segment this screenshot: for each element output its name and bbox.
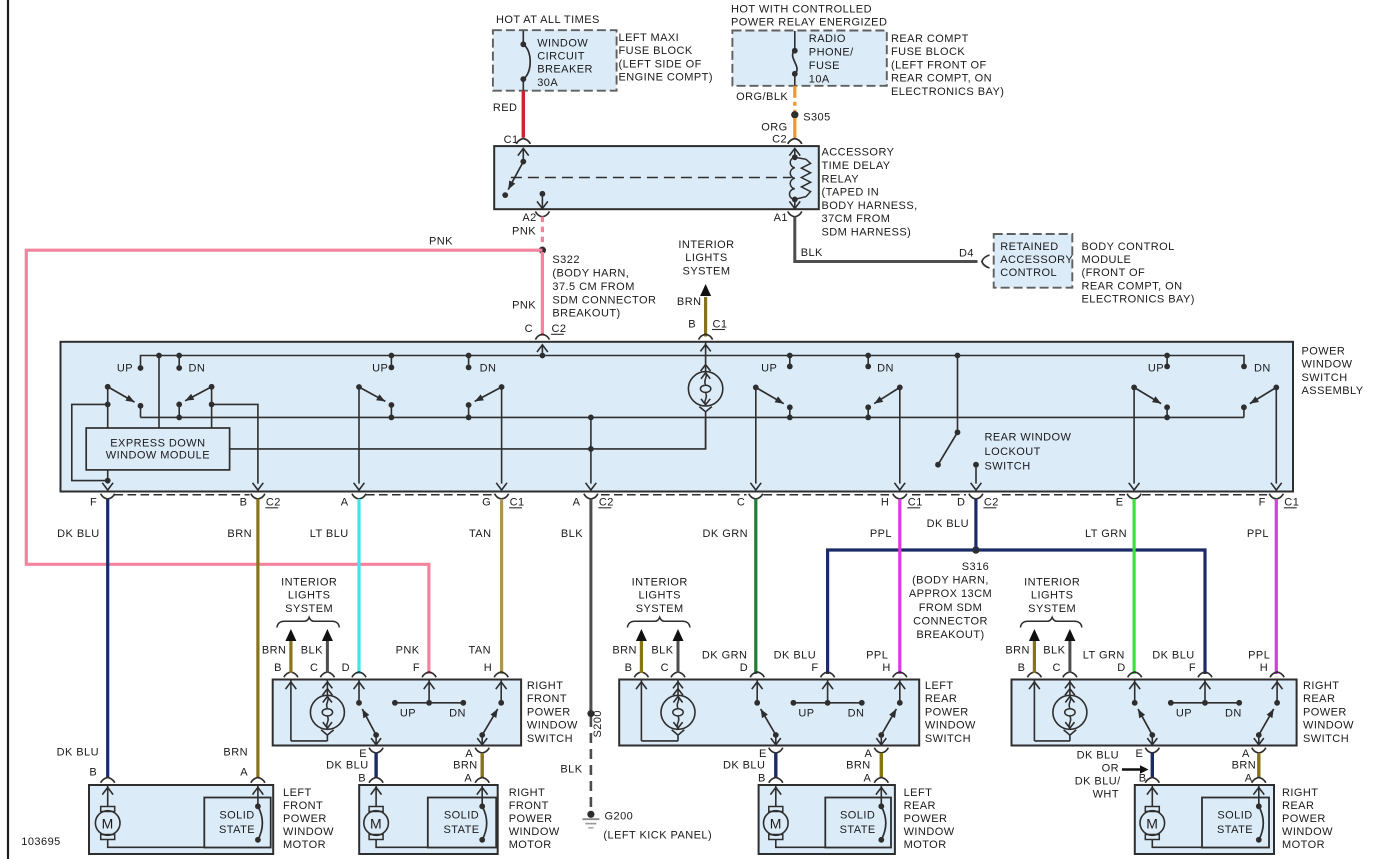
left rear up blade [761,709,776,735]
label SOLID STATE right front [443,810,479,837]
svg-text:BLK: BLK [560,763,582,775]
svg-text:ORG: ORG [761,121,787,133]
right front connector H [484,662,508,677]
connector pin D C2 assembly bottom [957,494,999,509]
svg-text:LOCKOUT: LOCKOUT [985,446,1041,458]
connector C1 [504,134,531,146]
svg-text:POWER: POWER [509,813,553,825]
connector pin A C2 assembly bottom [573,494,614,509]
svg-text:M: M [102,816,114,832]
svg-text:DN: DN [1254,363,1271,375]
svg-text:(LEFT KICK PANEL): (LEFT KICK PANEL) [603,829,712,841]
right rear switch box [1012,680,1297,746]
switch master left contact [138,403,144,418]
svg-text:WINDOW: WINDOW [509,826,560,838]
svg-text:ENGINE COMPT): ENGINE COMPT) [619,72,713,84]
connector pin F C1 assembly bottom [1259,494,1300,509]
svg-text:DK BLU: DK BLU [57,746,99,758]
svg-text:MOTOR: MOTOR [1282,839,1325,851]
svg-text:WINDOW: WINDOW [537,37,588,49]
svg-text:A2: A2 [522,212,536,224]
svg-text:ACCESSORY: ACCESSORY [1000,254,1073,266]
relay control dashed line [511,177,792,179]
svg-text:SOLID: SOLID [840,810,875,822]
wire DK BLU pin D to S316 [974,499,977,550]
svg-text:UP: UP [400,708,416,720]
switch master DN stub [176,353,205,375]
svg-text:A: A [464,773,472,785]
svg-text:STATE: STATE [840,824,876,836]
svg-text:SYSTEM: SYSTEM [285,603,333,615]
svg-text:FRONT: FRONT [283,800,323,812]
svg-text:STATE: STATE [219,824,255,836]
svg-text:LEFT: LEFT [904,787,933,799]
switch master UP contact [117,363,144,375]
connector C C2 into assembly [525,323,567,340]
svg-text:B: B [89,766,97,778]
svg-text:BLK: BLK [301,645,323,657]
wire BRN right rear A [1257,753,1260,778]
switch lr left contact [787,404,793,420]
left rear motor box [759,785,895,854]
wire express bypass loop [72,404,108,480]
wire pin A C2 ground [586,415,597,491]
svg-text:BLK: BLK [561,528,583,540]
svg-text:PNK: PNK [512,300,536,312]
label ACCESSORY TIME DELAY RELAY [822,147,918,239]
svg-text:H: H [1260,662,1268,674]
svg-text:PNK: PNK [396,645,420,657]
right front connector C [310,662,334,677]
svg-text:FROM SDM: FROM SDM [919,602,982,614]
svg-text:E: E [759,748,767,760]
label WINDOW CIRCUIT BREAKER 30A [537,37,593,89]
right front solid state box [428,798,496,848]
label INTERIOR LIGHTS SYSTEM right front [281,576,337,614]
wire BRN to interior lights [700,284,711,337]
svg-text:POWER: POWER [527,706,571,718]
svg-text:C1: C1 [504,134,519,146]
svg-text:LEFT: LEFT [283,787,312,799]
svg-text:POWER: POWER [1302,346,1346,358]
svg-text:B: B [358,773,366,785]
svg-text:RIGHT: RIGHT [1303,680,1339,692]
svg-text:37CM FROM: 37CM FROM [822,213,891,225]
svg-text:FUSE BLOCK: FUSE BLOCK [619,45,693,57]
label left rear switch [925,680,976,745]
svg-text:BRN: BRN [1232,760,1257,772]
svg-text:C1: C1 [1284,497,1299,509]
left rear window up switch [752,680,763,706]
switch rf DN stub [466,353,497,375]
connector pin B C2 assembly bottom [240,494,281,509]
svg-text:MOTOR: MOTOR [904,839,947,851]
switch lr left blade [756,387,784,403]
svg-text:DN: DN [480,363,497,375]
svg-text:B: B [625,662,633,674]
connector C2 [772,134,802,146]
svg-text:REAR: REAR [1282,800,1314,812]
switch rr right pivot [1271,385,1282,491]
svg-text:BREAKOUT): BREAKOUT) [552,308,620,320]
svg-text:FRONT: FRONT [527,693,567,705]
label S316 BODY HARN [909,561,992,641]
connector B C1 assembly top [688,318,727,339]
svg-text:(LEFT SIDE OF: (LEFT SIDE OF [619,58,702,70]
svg-text:(LEFT FRONT OF: (LEFT FRONT OF [891,59,987,71]
label LEFT MAXI FUSE BLOCK [619,32,713,84]
svg-text:DN: DN [449,708,466,720]
connector A motor left rear A [864,773,889,785]
right front solid state switch [477,785,488,843]
svg-text:LT BLU: LT BLU [310,528,349,540]
svg-text:B: B [274,662,282,674]
right rear up lower contact [1147,732,1157,745]
wire BRN left rear A [880,753,883,778]
svg-text:BRN: BRN [227,528,252,540]
svg-text:REAR COMPT: REAR COMPT [891,33,969,45]
svg-text:DK BLU: DK BLU [326,760,368,772]
svg-text:S305: S305 [803,111,831,123]
svg-text:C2: C2 [599,497,614,509]
wire BRN right front A [481,753,484,778]
svg-text:DN: DN [877,363,894,375]
arrow pointer to B [1122,765,1149,773]
left rear connector A bottom [865,748,889,761]
svg-text:DK BLU: DK BLU [723,760,765,772]
svg-text:ACCESSORY: ACCESSORY [822,147,895,159]
svg-text:REAR WINDOW: REAR WINDOW [985,432,1072,444]
svg-text:A1: A1 [774,212,788,224]
connector pin H C1 assembly bottom [881,494,923,509]
svg-text:BLK: BLK [801,247,823,259]
splice S322 [539,247,546,254]
wire DK BLU pin F to left front motor [106,499,109,778]
left rear window down switch [894,680,905,706]
left rear rocker UP DN [791,680,865,720]
wire RED [522,91,525,138]
svg-text:RIGHT: RIGHT [527,680,563,692]
switch lr left pivot [750,385,761,491]
label right front switch [527,680,578,745]
svg-text:BRN: BRN [846,760,871,772]
switch rr DN contact [1241,363,1271,375]
right rear motor M [1140,785,1259,847]
connector A motor right front A [464,773,489,785]
svg-text:WINDOW: WINDOW [1302,359,1353,371]
svg-text:UP: UP [798,708,814,720]
svg-text:LEFT: LEFT [925,680,954,692]
switch lr UP stub [761,353,793,375]
splice S305 [791,111,831,123]
svg-text:PPL: PPL [1248,650,1270,662]
switch rr right contact [1241,404,1247,417]
svg-text:H: H [484,662,492,674]
svg-text:LIGHTS: LIGHTS [685,252,727,264]
svg-text:WINDOW: WINDOW [283,826,334,838]
lamp assembly illumination [688,342,722,449]
wire BLK interior lights left rear [673,629,684,673]
svg-text:10A: 10A [809,73,830,85]
switch rf left contact [389,402,395,420]
wire bus2 [141,416,1244,418]
fuse block box (left maxi) [493,30,617,90]
relay contact A2 stub [537,191,548,209]
label INTERIOR LIGHTS SYSTEM top [678,239,734,277]
switch rf left blade [359,387,385,401]
svg-text:D: D [740,662,748,674]
svg-text:BLK: BLK [651,645,673,657]
label HOT WITH CONTROLLED POWER RELAY ENERGIZED [731,4,887,29]
connector B motor right front E [358,773,383,785]
connector pin F assembly bottom [90,494,115,509]
svg-text:SOLID: SOLID [219,810,254,822]
ground G200 [582,811,599,828]
retained accessory control box [994,234,1073,288]
svg-text:RELAY: RELAY [822,173,860,185]
left rear solid state box [825,798,891,848]
svg-text:BRN: BRN [1005,645,1030,657]
svg-text:MOTOR: MOTOR [283,839,326,851]
svg-text:WINDOW: WINDOW [904,826,955,838]
splice S316 and DK BLU branch [828,546,1205,674]
svg-text:BRN: BRN [453,760,478,772]
brace right front [277,617,340,627]
connector A1 [774,211,802,223]
svg-text:M: M [370,816,382,832]
label SOLID STATE left rear [840,810,876,837]
wire ORG [793,118,796,138]
svg-text:BRN: BRN [612,645,637,657]
right front connector F [413,662,436,677]
circuit breaker 30A [520,31,530,91]
svg-text:F: F [90,497,97,509]
connector B motor left rear E [758,773,783,785]
connector pin E assembly bottom [1116,494,1141,509]
svg-text:INTERIOR: INTERIOR [678,239,734,251]
right front window up switch [354,680,365,706]
svg-text:C1: C1 [908,497,923,509]
right rear up blade [1138,709,1152,735]
right front down lower contact [477,732,487,745]
svg-text:A: A [573,497,581,509]
svg-text:REAR: REAR [904,800,936,812]
svg-text:H: H [881,497,889,509]
svg-text:POWER: POWER [1282,813,1326,825]
svg-text:DK BLU: DK BLU [774,650,816,662]
left rear connector H [882,662,906,677]
svg-text:SWITCH: SWITCH [925,733,971,745]
svg-text:B: B [1018,662,1026,674]
right front down blade [482,709,498,735]
svg-text:RED: RED [493,102,518,114]
switch master right pivot [209,384,215,428]
svg-text:A: A [240,766,248,778]
connector D4 [959,248,989,269]
wire BLK pin A to S200 [589,499,592,714]
svg-text:A: A [465,748,473,760]
wire C feed into bus [537,345,548,359]
svg-text:SYSTEM: SYSTEM [1028,603,1076,615]
svg-text:HOT WITH CONTROLLED: HOT WITH CONTROLLED [731,4,872,16]
svg-text:FUSE: FUSE [809,60,840,72]
wire PPL pin H to left rear switch [898,499,901,674]
svg-text:C2: C2 [266,497,281,509]
switch rf right pivot [496,384,507,490]
svg-text:DK BLU/: DK BLU/ [1075,776,1121,788]
svg-text:S322: S322 [552,254,580,266]
brace right rear [1020,617,1082,627]
connector pin A assembly bottom [341,494,366,509]
left front motor box [89,785,273,854]
brace left rear [627,617,690,627]
right rear window up switch [1129,680,1140,706]
svg-text:STATE: STATE [1217,824,1253,836]
label SOLID STATE right rear [1217,810,1253,837]
svg-text:DK BLU: DK BLU [57,528,99,540]
wire PNK down to connector C [541,252,544,336]
svg-text:UP: UP [372,363,388,375]
svg-text:DN: DN [848,708,865,720]
svg-text:APPROX 13CM: APPROX 13CM [909,588,992,600]
svg-text:C: C [310,662,318,674]
svg-text:WINDOW: WINDOW [925,720,976,732]
left rear connector C [661,662,685,677]
svg-text:FRONT: FRONT [509,800,549,812]
wire BLK interior lights right front [322,629,333,673]
wire BLK dashed to ground [590,717,593,811]
svg-text:STATE: STATE [443,824,479,836]
svg-text:A: A [1245,773,1253,785]
wire module feed from bus [156,353,162,428]
svg-text:ELECTRONICS BAY): ELECTRONICS BAY) [1082,294,1195,306]
svg-text:TIME DELAY: TIME DELAY [822,160,891,172]
switch lr right contact [865,404,871,420]
right front up blade [362,709,376,735]
svg-text:(BODY HARN,: (BODY HARN, [912,575,989,587]
label left rear motor [904,787,955,851]
svg-text:POWER: POWER [925,706,969,718]
connector B left front motor [89,766,114,783]
connector A right rear motor [1245,773,1266,785]
svg-text:A: A [341,497,349,509]
svg-text:DK BLU: DK BLU [1077,750,1119,762]
svg-text:SDM HARNESS): SDM HARNESS) [822,227,912,239]
switch rf right blade [475,387,502,401]
label INTERIOR LIGHTS SYSTEM right rear [1024,576,1080,614]
label POWER WINDOW SWITCH ASSEMBLY [1302,346,1364,398]
connector B right rear motor [1139,773,1160,785]
svg-text:POWER: POWER [1303,706,1347,718]
svg-text:H: H [882,662,890,674]
switch rr right blade [1250,387,1276,403]
wire BLK to body control module [795,217,978,262]
switch rf right contact [466,402,472,420]
svg-text:D: D [1117,662,1125,674]
label BODY CONTROL MODULE [1082,241,1195,306]
label INTERIOR LIGHTS SYSTEM left rear [632,576,688,614]
wire to pin B [212,404,264,490]
svg-text:37.5 CM FROM: 37.5 CM FROM [552,281,634,293]
svg-text:SWITCH: SWITCH [1303,733,1349,745]
right front up lower contact [371,732,381,745]
svg-text:SDM CONNECTOR: SDM CONNECTOR [552,294,656,306]
fuse block box (rear compt) [732,31,886,86]
svg-text:DK BLU: DK BLU [927,518,969,530]
switch rr UP stub [1148,353,1170,375]
switch master left blade [108,387,135,402]
wire PNK long run to right front switch [26,250,542,674]
relay contact switch [518,148,529,164]
connector row dashes [115,494,1268,496]
svg-text:C: C [1052,662,1060,674]
svg-text:FUSE BLOCK: FUSE BLOCK [891,46,965,58]
svg-text:F: F [1259,497,1266,509]
wire LT GRN pin E to right rear switch [1132,499,1135,674]
wire PNK dashed from A2 [541,217,544,247]
svg-text:PNK: PNK [512,225,536,237]
svg-text:ORG/BLK: ORG/BLK [736,91,788,103]
svg-text:MODULE: MODULE [1082,254,1132,266]
svg-text:SWITCH: SWITCH [985,461,1031,473]
svg-text:TAN: TAN [469,528,492,540]
svg-text:G200: G200 [605,811,634,823]
switch rr left blade [1134,387,1161,403]
svg-text:E: E [1116,497,1124,509]
left rear lamp [661,680,695,741]
svg-text:C: C [661,662,669,674]
svg-text:BODY CONTROL: BODY CONTROL [1082,241,1175,253]
svg-text:DK GRN: DK GRN [703,528,748,540]
svg-text:LIGHTS: LIGHTS [288,590,330,602]
left rear wire B to lamp [636,680,678,741]
svg-text:DN: DN [189,363,206,375]
wire DK BLU right rear E [1151,753,1154,778]
svg-text:G: G [482,497,491,509]
svg-text:F: F [413,662,420,674]
switch rr left pivot [1129,385,1140,491]
svg-text:UP: UP [1148,363,1164,375]
svg-text:B: B [758,773,766,785]
relay coil [789,148,810,208]
svg-text:REAR COMPT, ON: REAR COMPT, ON [891,73,992,85]
switch master right blade [185,387,211,401]
svg-text:PPL: PPL [1247,528,1269,540]
left rear connector D [740,662,764,677]
wire BRN interior lights right rear [1029,629,1040,673]
left rear connector E [759,748,783,761]
label right rear motor [1282,787,1333,851]
left rear connector B [625,662,649,677]
svg-text:OR: OR [1102,763,1119,775]
right front motor M [364,785,482,847]
left rear solid state switch [876,785,887,843]
right rear connector D [1117,662,1141,677]
svg-text:SYSTEM: SYSTEM [683,265,731,277]
svg-text:S200: S200 [592,710,604,738]
right front rocker UP DN [392,680,466,720]
left rear motor M [764,785,882,847]
right rear connector H [1260,662,1284,677]
right front window down switch [496,680,507,706]
connector A left front motor [240,766,265,783]
svg-text:E: E [1136,748,1144,760]
wire TAN pin G to right front switch [500,499,503,674]
svg-text:C: C [525,323,533,335]
fuse RADIO PHONE 10A [792,31,798,86]
svg-text:REAR: REAR [925,693,957,705]
svg-text:RIGHT: RIGHT [509,787,545,799]
